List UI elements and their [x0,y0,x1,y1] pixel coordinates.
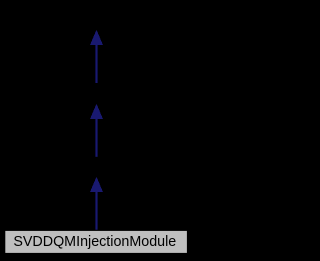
arrow 3 head [91,178,103,192]
inheritance graph for SVDDQMInjectionModule [0,0,192,261]
svg-text:SVDDQMInjectionModule: SVDDQMInjectionModule [13,234,176,250]
arrow 1 head [91,31,103,45]
wire: arrow 1 stem (top inheritance edge) [95,44,97,83]
node SVDDQMInjectionModule box [5,230,188,253]
wire: arrow 2 stem (middle inheritance edge) [95,118,97,157]
arrow 2 head [91,105,103,119]
wire: arrow 3 stem (bottom inheritance edge) [95,191,97,230]
